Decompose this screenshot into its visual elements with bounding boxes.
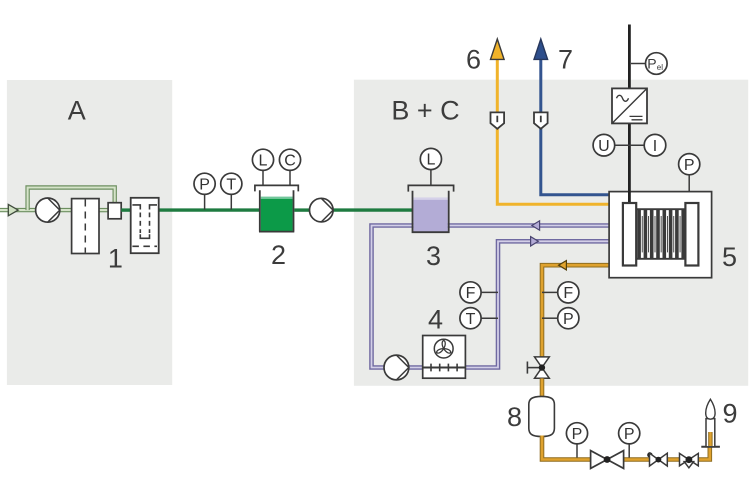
gas separator box 4 with fan xyxy=(423,336,466,379)
instrument P (after vessel 8) xyxy=(566,423,587,458)
svg-text:F: F xyxy=(466,285,476,302)
electrolyzer stack 5 xyxy=(609,192,712,278)
tank 3 (purple tank) xyxy=(408,185,453,232)
wire: power line (converter to stack) xyxy=(628,123,631,191)
instrument L (tank 2) xyxy=(252,149,273,185)
arrow on purple return line xyxy=(532,221,540,230)
flame arrester (yellow line) xyxy=(491,112,505,128)
instrument F (purple line) xyxy=(460,282,498,303)
node (sample point dot) xyxy=(647,452,652,457)
svg-text:U: U xyxy=(598,138,610,155)
vessel 8 (buffer) xyxy=(529,396,555,436)
pump P2 (circulation) xyxy=(310,198,334,222)
instrument T (feed line) xyxy=(221,173,242,209)
wire: purple supply line (loop to comp5) xyxy=(465,241,609,367)
AC/DC converter xyxy=(612,88,647,123)
svg-text:A: A xyxy=(68,96,86,126)
instrument Pel xyxy=(631,53,667,75)
svg-text:P: P xyxy=(624,426,635,443)
svg-text:8: 8 xyxy=(507,402,522,432)
svg-text:3: 3 xyxy=(426,241,441,271)
valve V1 (vertical, with handle) xyxy=(527,357,549,378)
instrument P (before valves) xyxy=(619,423,640,458)
svg-text:B + C: B + C xyxy=(391,96,459,126)
filter vessel 1a xyxy=(72,199,99,254)
instrument F (orange line) xyxy=(542,282,579,303)
small box 1c xyxy=(108,203,121,219)
wire: bypass pipe (light green) xyxy=(28,188,115,211)
valve V2 xyxy=(591,451,624,469)
svg-text:9: 9 xyxy=(722,399,737,429)
svg-text:2: 2 xyxy=(271,240,286,270)
instrument L (tank 3) xyxy=(420,148,441,185)
wire: orange pipe vessel 8 to flare xyxy=(542,436,710,460)
zone B+C background xyxy=(354,80,748,386)
tank 2 (green water tank) xyxy=(255,185,298,231)
svg-text:C: C xyxy=(284,153,296,170)
svg-text:4: 4 xyxy=(428,305,443,335)
valve V4 (three-way) xyxy=(680,453,699,467)
arrow 7 (hydrogen out) xyxy=(534,39,548,59)
wire: blue hydrogen line xyxy=(541,58,609,195)
wire: orange pipe valve to vessel 8 xyxy=(540,378,545,397)
wire: purple return line (comp5 to tank3) xyxy=(372,226,610,368)
wire: dark green pipe pump to tank3 xyxy=(333,208,413,211)
instrument T (purple line) xyxy=(460,308,498,329)
svg-text:1: 1 xyxy=(108,244,123,274)
pump P1 (feed pump) xyxy=(36,198,60,222)
arrow 6 (oxygen out) xyxy=(491,39,505,59)
wire: orange gas line comp5 to valve/vessel 8 xyxy=(542,265,609,357)
ion exchanger vessel 1b xyxy=(131,198,159,253)
arrow on purple supply line xyxy=(531,237,539,246)
wire: feed water inlet pipe (light green) xyxy=(0,208,72,212)
svg-text:L: L xyxy=(426,152,435,169)
wire: power line (top) xyxy=(628,25,631,89)
svg-text:7: 7 xyxy=(558,45,573,75)
wire: yellow oxygen line xyxy=(497,58,609,204)
flare 9 xyxy=(701,399,720,447)
svg-text:P: P xyxy=(563,311,574,328)
svg-text:el: el xyxy=(657,63,663,72)
wire: dark green pipe tank2 to pump xyxy=(294,208,310,211)
pump P3 (loop pump) xyxy=(384,355,409,380)
wire: dark green pipe vessel to tank 2 xyxy=(159,208,260,211)
svg-text:P: P xyxy=(199,177,210,194)
svg-text:P: P xyxy=(647,55,656,71)
wire: pipe between filter and small box (light green) xyxy=(99,208,108,212)
svg-text:5: 5 xyxy=(722,242,737,272)
svg-text:T: T xyxy=(226,177,236,194)
flame arrester (blue line) xyxy=(534,112,548,128)
instrument I xyxy=(644,134,666,156)
instrument U xyxy=(593,134,644,156)
svg-text:L: L xyxy=(259,153,268,170)
svg-text:P: P xyxy=(684,157,695,174)
arrow on orange line xyxy=(559,261,567,270)
svg-text:F: F xyxy=(563,285,573,302)
svg-text:T: T xyxy=(466,311,476,328)
svg-text:I: I xyxy=(653,138,657,155)
instrument P (orange line) xyxy=(542,308,579,329)
instrument P (stack) xyxy=(679,154,700,192)
wire: dark green pipe small box to vessel xyxy=(121,208,131,211)
zone A background xyxy=(7,80,172,385)
svg-text:P: P xyxy=(572,426,583,443)
instrument C (tank 2) xyxy=(279,149,300,185)
svg-text:6: 6 xyxy=(466,45,481,75)
instrument P (feed line) xyxy=(194,173,215,209)
valve V3 xyxy=(650,453,668,466)
inlet flow arrow xyxy=(8,204,18,215)
